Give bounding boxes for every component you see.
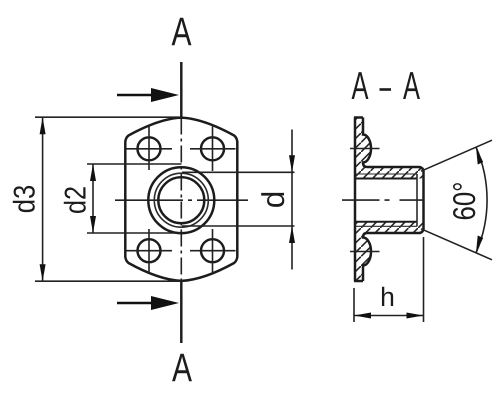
weld projection circle top-right (201, 137, 224, 160)
svg-text:A: A (403, 65, 420, 108)
centerlines top-right projection (190, 148, 236, 150)
svg-text:d: d (255, 191, 291, 209)
60 degree cone line lower (421, 229, 492, 260)
arc arrowhead upper (476, 147, 483, 164)
thread major diameter circle front view (154, 173, 208, 227)
centerlines top-left projection (127, 148, 173, 150)
svg-text:h: h (380, 282, 395, 312)
bore line bottom (355, 221, 417, 223)
barrel outer circle front view (148, 167, 214, 233)
viewing direction arrow bottom (117, 296, 179, 310)
vertical centerline of front view (180, 118, 182, 282)
dimension h extension line right (423, 237, 425, 322)
svg-text:d2: d2 (60, 186, 93, 214)
bore line top (355, 178, 417, 180)
thread runout line (416, 174, 418, 226)
dimension h extension line left (353, 288, 355, 322)
section hatch region lower (355, 222, 424, 281)
dimension d3 extension line bottom (35, 280, 182, 282)
dimension line d (289, 130, 295, 270)
svg-text:A: A (171, 10, 191, 54)
viewing direction arrow top (117, 88, 179, 102)
dimension line h (354, 313, 424, 319)
thread major line bottom (356, 225, 417, 227)
svg-text:60°: 60° (446, 182, 482, 221)
section outline: flange left face (354, 118, 357, 282)
arc arrowhead lower (476, 236, 483, 253)
dimension d2 extension line top (87, 163, 182, 165)
bore circle front view (158, 177, 204, 223)
dimension line d3 (40, 117, 46, 281)
svg-text:A: A (172, 346, 192, 390)
section title A - A (351, 65, 420, 108)
centerlines bottom-left projection (127, 250, 173, 252)
projection centerline upper (350, 148, 380, 150)
dimension d extension line top (182, 171, 295, 173)
flange outline front view (125, 118, 237, 281)
horizontal centerline of front view (115, 199, 248, 201)
section outline: right profile with projections and barrel (363, 118, 424, 282)
weld projection circle top-left (138, 137, 161, 160)
60 degree cone line upper (421, 140, 492, 171)
dimension d extension line bottom (182, 225, 295, 227)
cutting plane line upper segment (180, 62, 182, 118)
svg-text:A: A (351, 65, 368, 108)
weld projection circle bottom-left (138, 239, 161, 262)
centerlines bottom-right projection (190, 250, 236, 252)
weld projection circle bottom-right (201, 239, 224, 262)
section outline: flange top edge (354, 116, 363, 119)
section hatch region upper (355, 118, 424, 179)
dimension line d2 (90, 164, 96, 233)
svg-text:d3: d3 (9, 185, 42, 214)
section outline: flange bottom edge (354, 280, 363, 283)
dimension d2 extension line bottom (87, 232, 182, 234)
thread major line top (356, 173, 417, 175)
angular dimension arc (476, 147, 487, 253)
section horizontal centerline (342, 199, 424, 201)
cutting plane line lower segment (180, 281, 182, 343)
dimension d3 extension line top (35, 116, 182, 118)
projection centerline lower (350, 251, 380, 253)
